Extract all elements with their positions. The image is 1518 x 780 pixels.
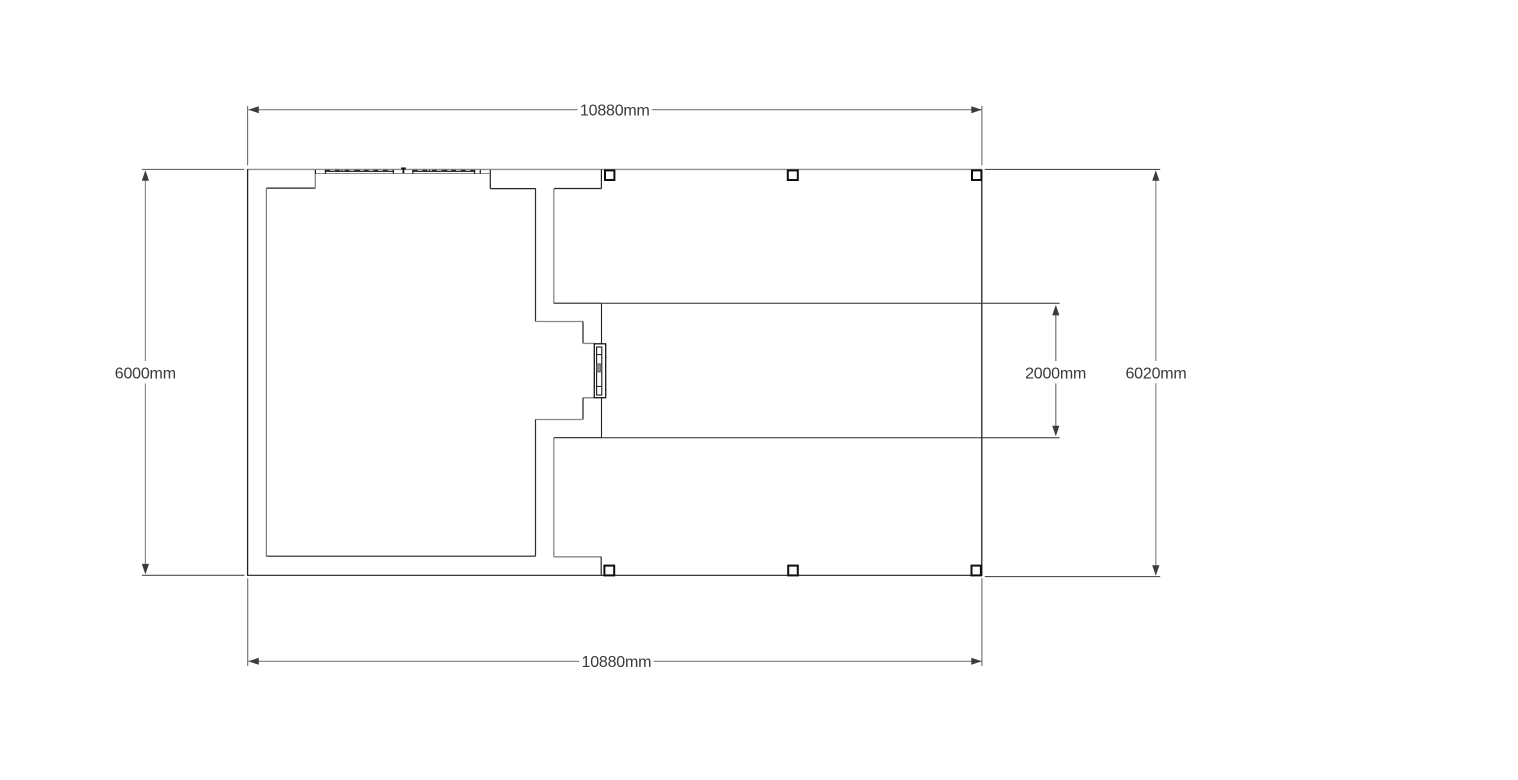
wire middle wall left edge upper bbox=[535, 189, 537, 322]
wire middle wall door-side edge bbox=[601, 303, 603, 438]
wire room inner left wall bbox=[265, 188, 267, 556]
window W1 pane ticks bbox=[342, 170, 464, 172]
wire middle wall right edge lower bbox=[553, 438, 555, 557]
column P1 top-left bbox=[605, 170, 614, 180]
svg-text:6000mm: 6000mm bbox=[115, 365, 176, 382]
window W1 pane dash row left sash bbox=[325, 169, 393, 171]
dimension top 10880mm extension lines bbox=[247, 106, 249, 165]
svg-text:10880mm: 10880mm bbox=[580, 103, 650, 120]
window W1 glazing line right sash bbox=[413, 170, 475, 172]
wire room inner bottom bbox=[266, 555, 535, 557]
door D1 handle bbox=[597, 364, 601, 372]
dimension top 10880mm arrows bbox=[248, 106, 258, 113]
wire middle wall step upper-left bbox=[536, 321, 584, 323]
dimension 2000mm extension lines bbox=[602, 302, 1060, 304]
wire bottom wall bbox=[248, 574, 982, 576]
dimension bottom 10880mm line bbox=[248, 660, 579, 662]
column P2 top-middle bbox=[788, 170, 798, 180]
wire middle wall jamb upper-left bbox=[582, 322, 584, 344]
wire left wall bbox=[247, 169, 249, 576]
window W1 glazing line left sash bbox=[325, 170, 393, 172]
wire middle wall right edge upper bbox=[553, 189, 555, 304]
dimension 2000mm line bbox=[1055, 307, 1057, 362]
window W1 center meeting mark bbox=[402, 168, 404, 174]
wire middle wall left edge lower bbox=[535, 420, 537, 557]
wire middle wall step lower-left bbox=[536, 419, 584, 421]
dimension left 6000mm extension lines bbox=[142, 168, 245, 170]
wire door stub top bbox=[583, 342, 594, 344]
column P4 bottom-left bbox=[604, 566, 614, 576]
svg-text:10880mm: 10880mm bbox=[582, 654, 652, 671]
window W1 inner sill line bbox=[315, 173, 489, 175]
wire middle wall jamb lower-left bbox=[582, 398, 584, 420]
door D1 inner panel bbox=[597, 347, 602, 395]
dimension bottom 10880mm arrows bbox=[248, 658, 258, 665]
wire window right jamb drop bbox=[489, 170, 491, 189]
column P5 bottom-middle bbox=[788, 566, 798, 576]
wire door stub bottom bbox=[583, 397, 594, 399]
wire inner top face west of column bbox=[554, 188, 601, 190]
dimension 2000mm arrows bbox=[1052, 305, 1059, 316]
dimension right 6020mm extension lines bbox=[985, 168, 1160, 170]
door D1 panel divider upper bbox=[597, 354, 602, 356]
wire middle wall step lower-right bbox=[554, 437, 602, 439]
wire middle wall step upper-right bbox=[554, 302, 602, 304]
wire middle wall foot bbox=[554, 556, 601, 558]
dimension left 6000mm arrows bbox=[142, 170, 149, 181]
dimension right 6020mm line bbox=[1155, 172, 1157, 361]
wire window left jamb drop bbox=[314, 174, 316, 189]
window W1 pane dash row right sash bbox=[413, 169, 475, 171]
wire inner top face east of window bbox=[490, 188, 535, 190]
dimension top 10880mm line bbox=[248, 109, 577, 111]
window W1 mullion ticks bbox=[315, 170, 480, 174]
wire drop at top column bbox=[600, 169, 602, 188]
wire middle wall foot drop bbox=[600, 557, 602, 576]
wire room inner top-left bbox=[266, 187, 315, 189]
svg-text:2000mm: 2000mm bbox=[1025, 365, 1086, 382]
dimension left 6000mm line bbox=[144, 172, 146, 362]
column P6 bottom-right bbox=[972, 566, 981, 576]
svg-text:6020mm: 6020mm bbox=[1125, 365, 1186, 382]
door D1 outer frame bbox=[594, 344, 605, 398]
door D1 panel divider lower bbox=[597, 385, 602, 387]
column P3 top-right bbox=[972, 170, 981, 180]
wire top wall bbox=[248, 168, 983, 170]
dimension right 6020mm arrows bbox=[1152, 170, 1159, 181]
dimension bottom 10880mm extension lines bbox=[247, 578, 249, 666]
wire right wall bbox=[981, 169, 983, 576]
